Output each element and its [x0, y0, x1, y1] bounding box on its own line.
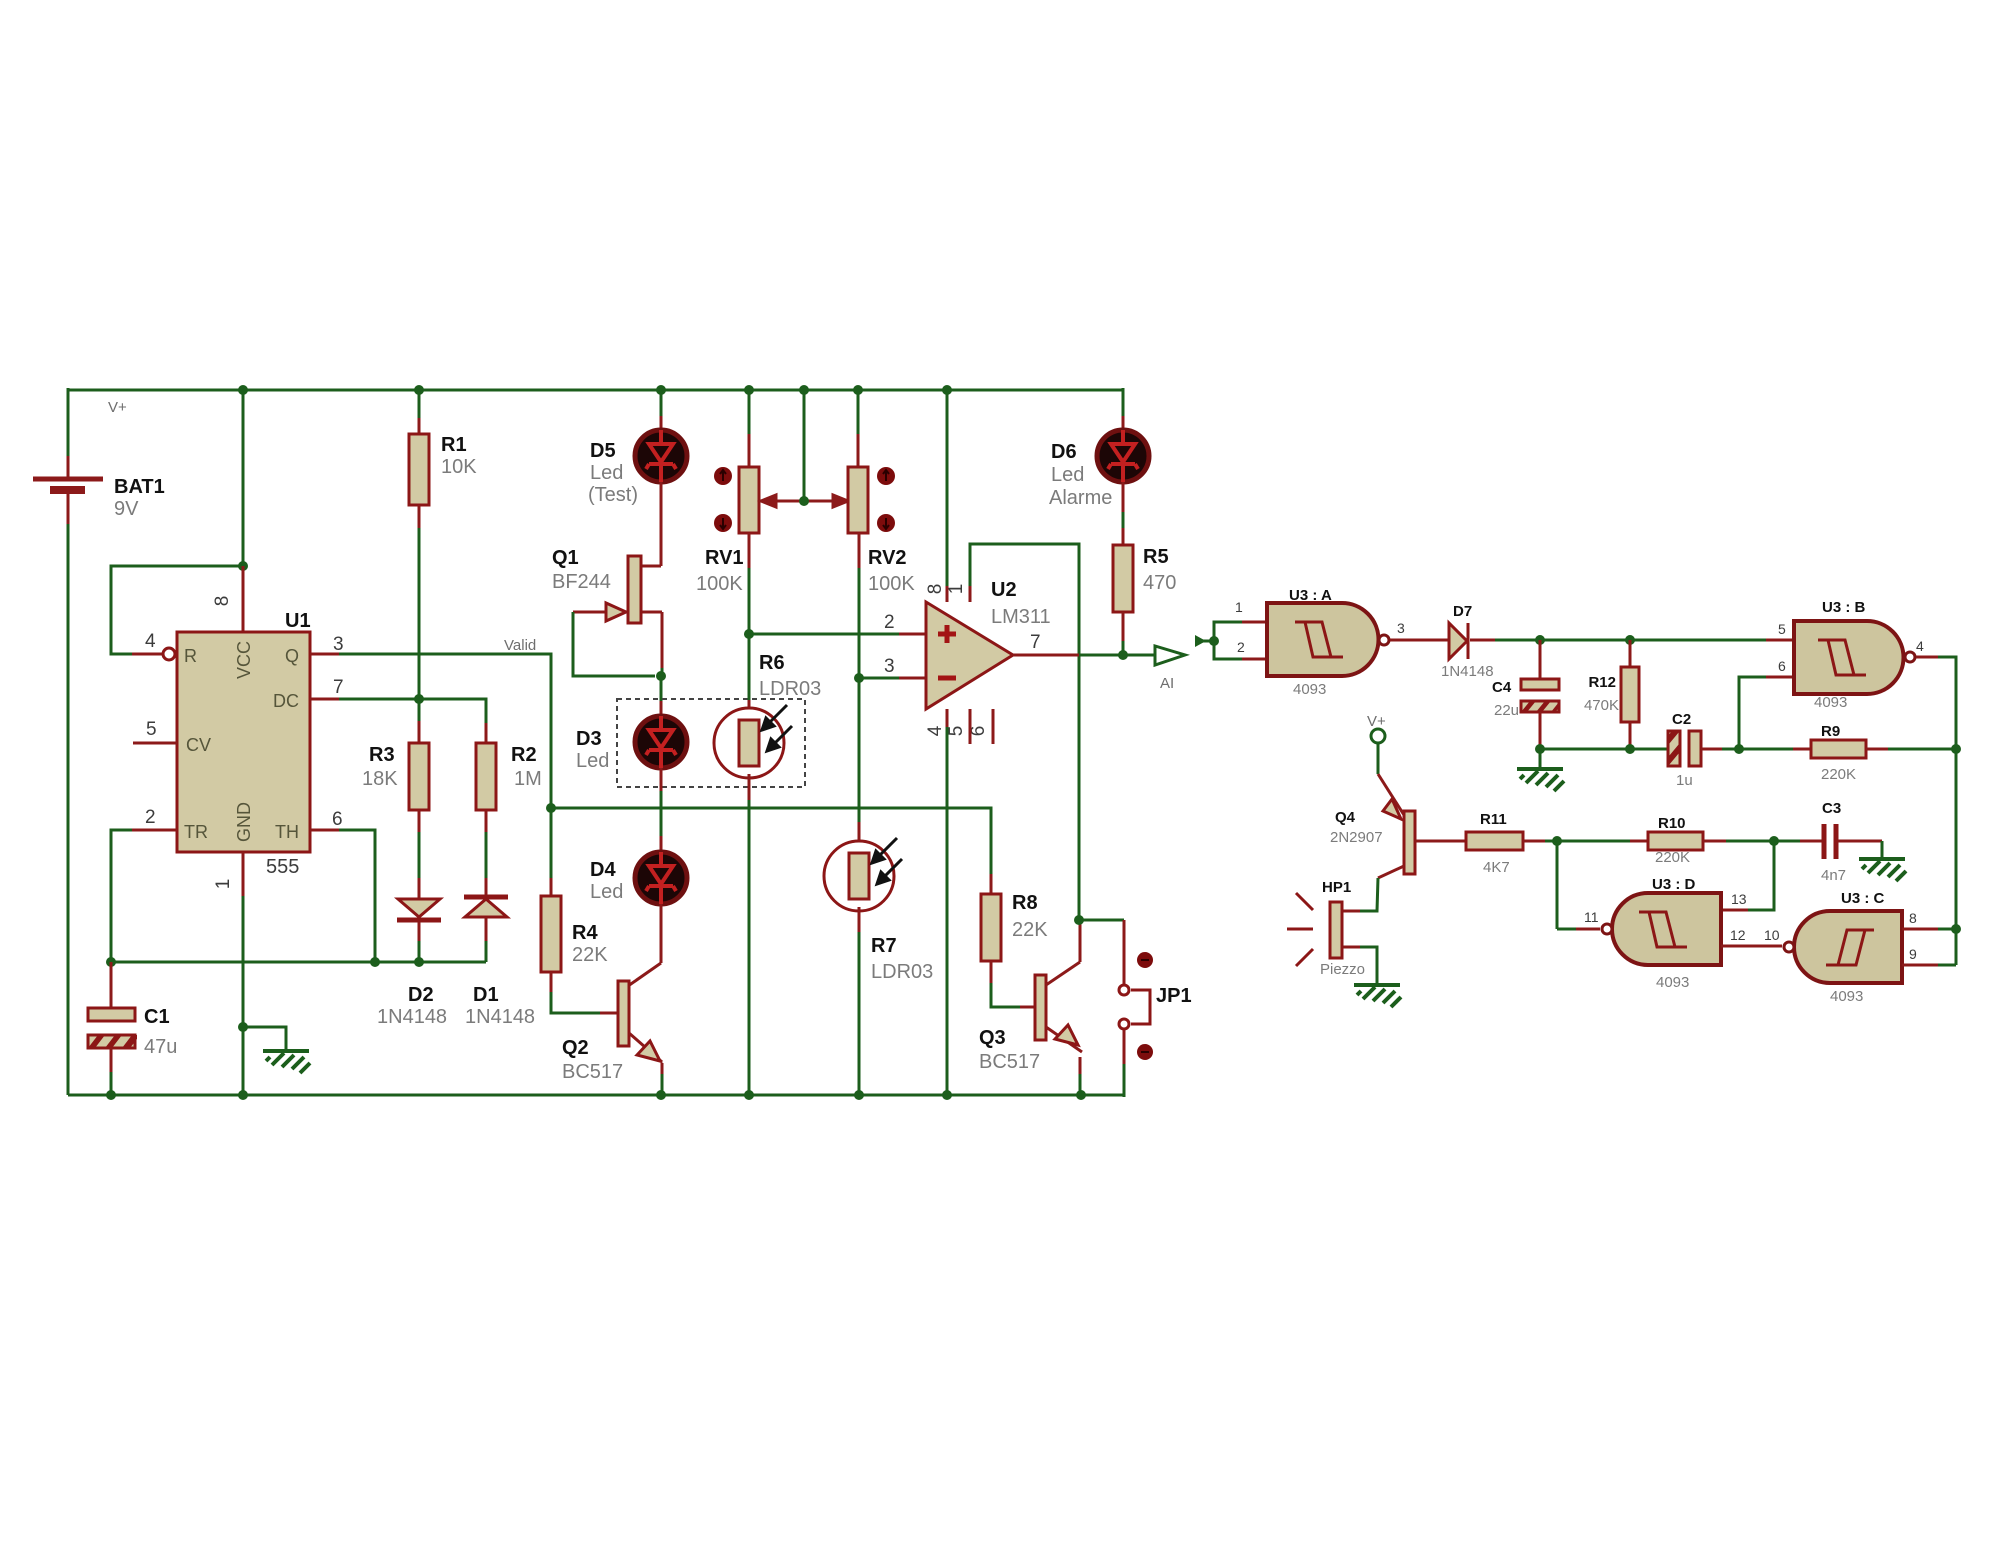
svg-text:13: 13	[1731, 891, 1747, 907]
wire R7 bottom to ground rail	[858, 907, 861, 932]
svg-text:2: 2	[884, 612, 895, 633]
capacitor C1	[88, 962, 177, 1095]
resistor R9	[1739, 723, 1956, 783]
svg-text:TR: TR	[184, 822, 208, 842]
svg-text:5: 5	[1778, 621, 1786, 637]
wire R5 bottom to output node	[1122, 612, 1125, 641]
svg-text:6: 6	[1778, 658, 1786, 674]
terminal input stub to U3:A	[1195, 635, 1214, 647]
svg-text:22u: 22u	[1494, 702, 1519, 719]
wire D5 cathode to Q1 drain	[660, 482, 663, 566]
svg-text:Alarme: Alarme	[1049, 487, 1112, 509]
wire Q3 emitter to rail	[1079, 1057, 1082, 1074]
node wiper junction	[799, 496, 809, 506]
ground symbol right of C3	[1859, 859, 1906, 881]
wire R4 to Q2 base	[550, 972, 553, 992]
wire C2 right to pin6 node	[1701, 748, 1722, 751]
svg-text:22K: 22K	[1012, 919, 1048, 941]
wire R6 bottom to ground rail	[748, 774, 751, 800]
svg-text:47u: 47u	[144, 1036, 177, 1058]
wire junction to D3	[660, 676, 663, 701]
node C4 tap	[1535, 635, 1545, 645]
node junctions on trigger bus	[106, 957, 424, 967]
jumper JP1	[1119, 952, 1192, 1060]
svg-text:R2: R2	[511, 744, 537, 766]
svg-text:RV2: RV2	[868, 547, 907, 569]
svg-text:R11: R11	[1480, 811, 1507, 828]
wire trigger/threshold bus	[111, 961, 486, 964]
LED D5 (Test)	[588, 430, 687, 506]
svg-text:BAT1: BAT1	[114, 476, 165, 498]
svg-text:2N2907: 2N2907	[1330, 829, 1383, 846]
svg-text:VCC: VCC	[234, 641, 254, 679]
node C4 bottom junction	[1535, 744, 1545, 754]
svg-text:V+: V+	[108, 399, 127, 416]
wire left rail to battery	[67, 388, 70, 456]
svg-text:Piezzo: Piezzo	[1320, 961, 1365, 978]
svg-text:8: 8	[1909, 910, 1917, 926]
node minus input junction	[854, 673, 864, 683]
wire D7 cathode to U3:B pin 5	[1470, 639, 1495, 642]
gate U3:B 4093	[1778, 599, 1924, 711]
svg-text:(Test): (Test)	[588, 484, 638, 506]
svg-text:R8: R8	[1012, 892, 1038, 914]
svg-text:2: 2	[1237, 639, 1245, 655]
wire junction to JP1 top	[1079, 919, 1124, 922]
wire D6 to R5	[1122, 482, 1125, 512]
wire U2 pin 8 to rail	[946, 586, 949, 602]
wire U2 pin 4 to ground rail	[946, 709, 949, 727]
transistor Q2 BC517	[562, 981, 662, 1083]
diode D7 1N4148	[1441, 603, 1494, 680]
terminal V+	[1367, 713, 1386, 743]
svg-text:JP1: JP1	[1156, 985, 1192, 1007]
wire top V+ rail	[68, 389, 1123, 392]
wire C4 ground stub	[1539, 749, 1542, 767]
svg-text:R3: R3	[369, 744, 395, 766]
svg-text:Q2: Q2	[562, 1037, 589, 1059]
svg-text:U3 : C: U3 : C	[1841, 890, 1885, 907]
node V+ rail junction dots	[238, 385, 952, 395]
wire R2 top pin	[485, 723, 488, 743]
svg-text:CV: CV	[186, 735, 211, 755]
capacitor C3	[1774, 800, 1882, 884]
wire pin 1 to ground rail	[242, 852, 245, 896]
node U3:A input junction	[1209, 636, 1219, 646]
svg-text:10: 10	[1764, 927, 1780, 943]
svg-text:3: 3	[333, 634, 344, 655]
wire R3 top pin	[418, 699, 421, 721]
svg-text:1u: 1u	[1676, 772, 1693, 789]
wire plus node to R6	[748, 634, 751, 700]
svg-text:R10: R10	[1658, 815, 1686, 832]
speaker HP1 Piezzo	[1287, 879, 1365, 978]
svg-text:U3 : D: U3 : D	[1652, 876, 1696, 893]
wire D1 to trigger bus	[485, 917, 488, 941]
wire wiper tap from rail	[803, 390, 806, 501]
resistor R5	[1113, 545, 1176, 612]
svg-text:7: 7	[1030, 632, 1041, 653]
svg-text:555: 555	[266, 856, 299, 878]
svg-text:U3 : B: U3 : B	[1822, 599, 1866, 616]
wire Valid node down to R4	[550, 808, 553, 878]
wire D3 to D4	[660, 768, 663, 791]
svg-text:R9: R9	[1821, 723, 1840, 740]
wire junction down to U3:D pin 13	[1748, 841, 1774, 910]
svg-text:Q1: Q1	[552, 547, 579, 569]
wire wiper double arrow RV1-RV2	[761, 495, 848, 507]
svg-text:1N4148: 1N4148	[1441, 663, 1494, 680]
wire Q4 base to R11	[1415, 840, 1466, 843]
svg-text:Led: Led	[576, 750, 609, 772]
wire pin 8 stub	[242, 566, 245, 632]
transistor Q4 2N2907	[1330, 799, 1415, 874]
svg-text:V+: V+	[1367, 713, 1386, 730]
svg-text:DC: DC	[273, 691, 299, 711]
svg-text:4n7: 4n7	[1821, 867, 1846, 884]
svg-text:R7: R7	[871, 935, 897, 957]
node VCC junction	[238, 561, 248, 571]
svg-text:BF244: BF244	[552, 571, 611, 593]
node collector/JP1 junction	[1074, 915, 1084, 925]
wire R1 column from rail	[418, 390, 421, 418]
svg-text:12: 12	[1730, 927, 1746, 943]
diode D1 1N4148	[464, 897, 535, 1028]
svg-text:HP1: HP1	[1322, 879, 1351, 896]
potentiometer RV2	[848, 467, 915, 595]
wire Q2 emitter to rail	[661, 1063, 664, 1074]
photoresistor R7 LDR03	[824, 838, 933, 983]
wire U3:B output feedback	[1916, 656, 1938, 659]
svg-text:4: 4	[145, 631, 156, 652]
svg-text:Valid: Valid	[504, 637, 536, 654]
battery BAT1	[33, 456, 165, 524]
node pin6/R9 junction	[1734, 744, 1744, 754]
svg-text:Q3: Q3	[979, 1027, 1006, 1049]
svg-text:R6: R6	[759, 652, 785, 674]
svg-text:TH: TH	[275, 822, 299, 842]
node R10/C3 junction	[1769, 836, 1779, 846]
svg-text:10K: 10K	[441, 456, 477, 478]
wire U2 pin 5 stub	[969, 709, 972, 744]
svg-text:7: 7	[333, 677, 344, 698]
svg-text:100K: 100K	[696, 573, 743, 595]
resistor R2	[476, 743, 542, 810]
svg-text:3: 3	[1397, 620, 1405, 636]
wire JP1 bottom to rail	[1123, 1030, 1126, 1064]
wire RV2 top pin	[857, 390, 860, 434]
wire C3 to ground	[1881, 841, 1884, 857]
svg-text:4: 4	[925, 725, 946, 736]
svg-text:100K: 100K	[868, 573, 915, 595]
node gnd stub junction	[238, 1022, 248, 1032]
wire D5 column from rail	[660, 390, 663, 416]
wire minus input to U2	[859, 677, 899, 680]
wire U3:C pin 9	[1902, 964, 1938, 967]
svg-text:Led: Led	[590, 881, 623, 903]
svg-text:2: 2	[145, 807, 156, 828]
svg-text:6: 6	[332, 809, 343, 830]
wire D4 cathode to Q2 collector	[660, 904, 663, 963]
wire C4/R12 bottom row	[1540, 748, 1668, 751]
svg-text:22K: 22K	[572, 944, 608, 966]
svg-text:1N4148: 1N4148	[377, 1006, 447, 1028]
svg-text:LM311: LM311	[991, 606, 1051, 628]
svg-text:220K: 220K	[1655, 849, 1690, 866]
svg-text:GND: GND	[234, 802, 254, 842]
svg-text:470: 470	[1143, 572, 1176, 594]
gate U3:D 4093	[1584, 876, 1747, 991]
wire CV stub pin 5	[133, 742, 177, 745]
svg-text:R1: R1	[441, 434, 467, 456]
resistor R8	[981, 892, 1048, 961]
svg-text:D2: D2	[408, 984, 434, 1006]
node R11/R10 junction	[1552, 836, 1562, 846]
svg-text:1: 1	[213, 879, 234, 890]
wire R3 to D2	[418, 810, 421, 832]
node output junction	[1118, 650, 1128, 660]
svg-text:5: 5	[146, 719, 157, 740]
wire minus node to R7	[858, 678, 861, 822]
resistor R1	[409, 434, 477, 505]
wire RV2 bottom to minus node	[858, 533, 861, 568]
svg-text:C1: C1	[144, 1006, 170, 1028]
svg-text:5: 5	[946, 726, 967, 737]
wire Valid bus to R8	[551, 808, 991, 874]
node plus input junction	[744, 629, 754, 639]
wire Q1 source down	[661, 612, 664, 668]
svg-text:1: 1	[946, 584, 967, 595]
wire R11 to R10	[1523, 840, 1545, 843]
wire ground stub	[243, 1027, 286, 1049]
capacitor C2	[1668, 711, 1701, 789]
wire RV1 bottom to plus node	[748, 533, 751, 568]
ground symbol near U1	[263, 1051, 310, 1073]
node DC junction	[414, 694, 424, 704]
LED D6 Alarme	[1049, 430, 1149, 509]
ground symbol under HP1	[1354, 985, 1401, 1007]
node R9 right junction	[1951, 744, 1961, 754]
op-amp U2 LM311	[884, 579, 1051, 736]
wire VCC to reset pin	[111, 566, 243, 654]
wire D2 to trigger bus	[418, 922, 421, 941]
transistor Q3 BC517	[979, 962, 1082, 1073]
wire U3:A input pins 1,2	[1214, 622, 1242, 659]
svg-text:Led: Led	[590, 462, 623, 484]
wire bottom ground rail	[68, 1094, 1124, 1097]
svg-text:470K: 470K	[1584, 697, 1619, 714]
resistor R4	[541, 896, 608, 972]
dashed opto group box	[617, 699, 805, 787]
wire Q3 collector up	[1079, 920, 1082, 962]
svg-text:BC517: BC517	[562, 1061, 623, 1083]
svg-text:11: 11	[1584, 909, 1599, 925]
op 555 timer U1	[145, 596, 344, 890]
LED D3	[576, 716, 687, 772]
wire Q4 collector to HP1	[1378, 866, 1404, 878]
wire U2 pin 6 stub	[992, 709, 995, 744]
wire U3:D pin 12 to U3:C output	[1721, 945, 1782, 948]
ground symbol under C4	[1517, 769, 1564, 791]
svg-text:9V: 9V	[114, 498, 139, 520]
svg-text:R12: R12	[1588, 674, 1616, 691]
svg-text:8: 8	[925, 584, 946, 595]
svg-text:D1: D1	[473, 984, 499, 1006]
svg-text:LDR03: LDR03	[759, 678, 821, 700]
wire U3:B pin 6	[1739, 677, 1766, 749]
wire Q1 gate loop	[573, 612, 655, 676]
terminal AI output arrow	[1155, 646, 1185, 692]
svg-text:Q4: Q4	[1335, 809, 1356, 826]
svg-text:4093: 4093	[1830, 988, 1863, 1005]
svg-text:220K: 220K	[1821, 766, 1856, 783]
wire R1 bottom to DC node	[418, 505, 421, 528]
wire plus input to U2	[749, 633, 899, 636]
wire V+ to Q4 emitter	[1377, 744, 1380, 774]
resistor R11	[1466, 811, 1523, 876]
wire junction down to U3:D pin 11	[1556, 841, 1559, 929]
svg-text:D3: D3	[576, 728, 602, 750]
svg-text:1: 1	[1235, 599, 1243, 615]
LED D4	[590, 852, 687, 904]
wire R2 to D1	[485, 810, 488, 832]
gate U3:A 4093	[1235, 587, 1405, 698]
wire RV1 top pin	[748, 390, 751, 434]
svg-text:3: 3	[884, 656, 895, 677]
svg-text:C4: C4	[1492, 679, 1512, 696]
wire Q output Valid net	[310, 653, 339, 656]
svg-text:9: 9	[1909, 946, 1917, 962]
svg-text:4093: 4093	[1293, 681, 1326, 698]
resistor R10	[1630, 815, 1774, 866]
node R12 tap	[1625, 635, 1635, 645]
svg-text:BC517: BC517	[979, 1051, 1040, 1073]
svg-text:1M: 1M	[514, 768, 542, 790]
node Valid junction	[546, 803, 556, 813]
svg-text:D6: D6	[1051, 441, 1077, 463]
wire U2 pin 1 to JP1 node	[969, 586, 972, 602]
svg-text:4K7: 4K7	[1483, 859, 1510, 876]
wire TR pin 2	[132, 829, 177, 832]
svg-text:4093: 4093	[1814, 694, 1847, 711]
svg-text:D4: D4	[590, 859, 616, 881]
svg-text:4093: 4093	[1656, 974, 1689, 991]
svg-text:D5: D5	[590, 440, 616, 462]
svg-text:18K: 18K	[362, 768, 398, 790]
wire VCC drop from rail	[242, 390, 245, 566]
node Q1 source junction	[656, 671, 666, 681]
svg-text:U3 : A: U3 : A	[1289, 587, 1332, 604]
wire DC pin 7 net	[310, 698, 339, 701]
svg-text:R5: R5	[1143, 546, 1169, 568]
capacitor C4	[1492, 640, 1559, 749]
svg-text:Q: Q	[285, 646, 299, 666]
svg-text:U2: U2	[991, 579, 1017, 601]
wire R8 bottom to Q3 base	[990, 961, 993, 983]
diode D2 1N4148	[377, 899, 447, 1028]
svg-text:Led: Led	[1051, 464, 1084, 486]
svg-text:R4: R4	[572, 922, 598, 944]
wire battery to bottom rail	[67, 524, 70, 1095]
node pin 8 junction	[1951, 924, 1961, 934]
svg-text:RV1: RV1	[705, 547, 744, 569]
potentiometer RV1	[696, 467, 759, 595]
svg-text:4: 4	[1916, 638, 1924, 654]
wire D6 column from rail	[1122, 388, 1125, 416]
node bottom rail junction dots	[106, 1090, 1086, 1100]
svg-text:LDR03: LDR03	[871, 961, 933, 983]
node R12 bottom junction	[1625, 744, 1635, 754]
resistor R3	[362, 743, 429, 810]
svg-text:R: R	[184, 646, 197, 666]
photoresistor R6 LDR03	[714, 652, 821, 778]
wire HP1 bottom to ground	[1343, 946, 1360, 949]
gate U3:C 4093	[1784, 890, 1917, 1005]
wire U3:C pin 8	[1902, 928, 1938, 931]
svg-text:D7: D7	[1453, 603, 1472, 620]
svg-text:U1: U1	[285, 610, 311, 632]
wire TH pin 6	[310, 829, 339, 832]
svg-text:8: 8	[212, 596, 233, 607]
transistor Q1 BF244	[552, 547, 662, 623]
wire U3:A output to D7	[1390, 639, 1449, 642]
svg-text:C2: C2	[1672, 711, 1691, 728]
svg-text:AI: AI	[1160, 675, 1174, 692]
wire U2 output pin 7	[1013, 654, 1079, 657]
svg-text:1N4148: 1N4148	[465, 1006, 535, 1028]
resistor R12	[1584, 640, 1639, 749]
svg-text:C3: C3	[1822, 800, 1841, 817]
